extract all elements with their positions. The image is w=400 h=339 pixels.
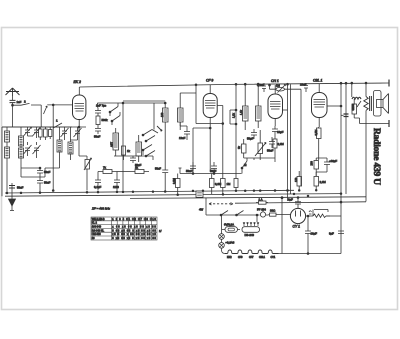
tube EK2 (73, 87, 86, 127)
svg-text:CY 1: CY 1 (293, 225, 301, 229)
wire top connect x98 (96, 103, 98, 108)
resistor 30ohm power (269, 209, 291, 217)
svg-text:1,1k: 1,1k (232, 112, 236, 118)
antenna (6, 88, 20, 100)
capacitor 3.3nF top CH1 (257, 83, 266, 92)
trimmer C1 (24, 127, 34, 136)
resistor x299 bottom (294, 171, 302, 191)
svg-text:Radione 439 U: Radione 439 U (371, 128, 381, 185)
output transformer primary zigzag (364, 82, 368, 201)
resistor x316 bottom (314, 177, 326, 191)
resistor 7k row (98, 166, 117, 174)
svg-text:≈0,3A6: ≈0,3A6 (226, 241, 235, 245)
choke HF right of CY1 (306, 211, 313, 216)
capacitor 1nF antenna (10, 100, 22, 127)
svg-text:10nF: 10nF (300, 83, 307, 87)
svg-text:CBL 1: CBL 1 (313, 79, 322, 83)
wire EK2 grid line (47, 104, 72, 106)
speaker (374, 91, 389, 117)
svg-text:1M: 1M (227, 182, 232, 186)
resistor 2k row (130, 166, 149, 174)
resistor 200 CBL1 cathode (310, 161, 319, 177)
switch pair mid (x110-120) (109, 103, 120, 125)
svg-text:x 68 x8 68 x8 68 x8 88: x 68 x8 68 x8 68 x8 88 (112, 226, 156, 229)
tube CF9 (203, 85, 217, 128)
svg-text:150: 150 (294, 177, 298, 182)
svg-text:CM-600: CM-600 (92, 233, 102, 236)
svg-text:1 2 3 4 C1 C2 C7 C8 C10: 1 2 3 4 C1 C2 C7 C8 C10 (112, 218, 156, 221)
svg-text:10µF: 10µF (277, 130, 284, 134)
capacitor bracket 1,1k (230, 109, 237, 125)
svg-text:50nF: 50nF (17, 186, 24, 190)
wire x196 vertical (196, 85, 223, 124)
coil L1 (5, 127, 10, 147)
tone switch (241, 158, 247, 174)
wire CF9 cathode bottom (193, 127, 211, 171)
IF transformer 1 coil b (178, 96, 184, 130)
svg-text:1M: 1M (276, 84, 281, 88)
hum coil bumps (351, 82, 361, 99)
resistor CH1 bottom (273, 136, 284, 158)
wire left block bottom (21, 168, 45, 177)
capacitor 50nF (x40 lower) (37, 178, 43, 194)
capacitor 8uF above CY1 (288, 197, 301, 204)
resistor row x223 (221, 179, 231, 195)
resistor row x236 (234, 179, 238, 191)
capacitor 50nF osc (130, 156, 142, 167)
svg-text:50nF: 50nF (267, 149, 274, 153)
svg-text:100: 100 (160, 112, 164, 117)
tube CH1 (268, 85, 283, 126)
coil L4 (19, 148, 41, 168)
svg-text:1nF: 1nF (17, 100, 22, 104)
svg-text:EK2: EK2 (227, 256, 232, 259)
dial lamp 1 (219, 215, 225, 239)
wire B+ vertical x341 (340, 82, 342, 253)
svg-text:50nF: 50nF (44, 181, 51, 185)
IF transformer 1 coil a (160, 102, 168, 191)
coil L3 (19, 127, 24, 148)
barretter arrows YYYYY (243, 222, 259, 226)
svg-text:8µF: 8µF (288, 198, 293, 202)
svg-text:500k: 500k (102, 118, 109, 122)
mains switch line (206, 198, 259, 216)
svg-text:CF 9: CF 9 (206, 79, 213, 83)
wire power box left x282 (281, 197, 283, 254)
grid leak components x96 (94, 104, 108, 139)
trimmer C6 (71, 127, 82, 140)
speaker terminal bottom (388, 120, 390, 127)
svg-text:8 x8 68 x8 8 x8 68 x8 88: 8 x8 68 x8 8 x8 68 x8 88 (112, 237, 156, 240)
capacitor pair band x40 (39, 127, 48, 140)
resistor row x211.7 (210, 174, 222, 195)
capacitor 13nF IF1 (179, 122, 190, 140)
svg-text:0,1µF: 0,1µF (94, 185, 101, 189)
capacitor 50nF ground (9, 186, 24, 190)
wire power bottom (278, 253, 341, 255)
svg-text:1113: 1113 (113, 185, 119, 189)
wire coil top bus (2, 126, 72, 128)
dial lamp 2 (219, 239, 235, 248)
capacitor electrolytic 10uF CBL1 (316, 158, 337, 176)
wire x287.5 vertical (287, 83, 289, 201)
resistor osc (122, 146, 131, 160)
coil L6 (68, 127, 73, 160)
resistor EK2 cathode pot (78, 126, 91, 190)
svg-text:16µF: 16µF (311, 232, 318, 236)
wire antenna column (52, 105, 54, 191)
svg-text:1/: 1/ (159, 229, 162, 233)
capacitor 10nF CH1 bottom (272, 126, 284, 136)
svg-text:1,1k: 1,1k (239, 109, 243, 115)
wire IF1 top (123, 93, 196, 101)
svg-text:x8 8 68 x 88 68 x8 88 x8: x8 8 68 x 88 68 x8 88 x8 (112, 233, 156, 236)
resistor 2k2 left of pot (237, 139, 246, 158)
osc coil A (110, 128, 119, 156)
wire x236 vertical (235, 83, 237, 178)
field coil GB50 (351, 99, 389, 124)
svg-text:0,2M: 0,2M (172, 178, 176, 184)
svg-text:WELLEN-B: WELLEN-B (92, 218, 105, 221)
switch 2 antenna (12, 100, 42, 127)
svg-text:CH 1: CH 1 (271, 79, 279, 83)
capacitor 50nF x163 (155, 167, 168, 173)
heater chain labels (227, 256, 276, 259)
capacitor 1113 bottom (113, 172, 130, 191)
trimmer C2 (33, 127, 41, 138)
box TW on bus (196, 191, 203, 197)
svg-text:160-340: 160-340 (92, 226, 102, 229)
svg-text:+10µF: +10µF (329, 159, 337, 163)
osc coil B (136, 135, 142, 162)
capacitor 0.1uF bottom (94, 172, 101, 191)
switch 1 grid arm (44, 106, 48, 114)
svg-text:1 A: 1 A (259, 197, 263, 201)
volume pot with arrow (255, 130, 266, 160)
coil L2 (5, 147, 10, 194)
barretter DB240 (242, 214, 260, 237)
top bus wire (80, 83, 390, 87)
table cell smudge text (92, 218, 157, 240)
bus wire L3 (130, 197, 366, 199)
trimmer C5 (61, 127, 69, 140)
capacitor 8uF out (329, 231, 344, 236)
trimmer C3 (24, 142, 32, 156)
svg-text:GB50: GB50 (351, 103, 355, 110)
tube CBL1 (312, 84, 342, 127)
switch cluster osc top (142, 126, 162, 142)
svg-text:2,2M: 2,2M (278, 142, 285, 146)
svg-text:CBL1: CBL1 (259, 256, 266, 259)
capacitor 16uF (305, 215, 317, 254)
ground symbol (9, 183, 16, 211)
svg-text:AST: AST (110, 142, 114, 147)
wire left edge (2, 127, 72, 196)
svg-text:200: 200 (310, 161, 314, 166)
fuse 1A (256, 197, 268, 204)
AF line wire (179, 168, 242, 174)
svg-text:3,3nF: 3,3nF (257, 83, 264, 87)
svg-text:DB-240: DB-240 (245, 233, 255, 237)
svg-text:KL 2: KL 2 (92, 222, 98, 225)
svg-text:ZF = 468 kHz: ZF = 468 kHz (91, 207, 111, 211)
speaker terminal top (388, 80, 390, 87)
svg-text:2,2M: 2,2M (320, 180, 327, 184)
wire x290.5 vertical (290, 84, 292, 194)
resistor 1M top right CH1 (269, 84, 301, 93)
svg-text:FF 344: FF 344 (257, 208, 266, 212)
capacitor band x49 (49, 127, 52, 139)
svg-text:4W: 4W (199, 208, 204, 212)
svg-text:8 68 x8 68 8 x8 88 x8 68: 8 68 x8 68 8 x8 88 x8 68 (112, 229, 156, 232)
svg-text:CF9: CF9 (238, 256, 243, 259)
capacitor 50nF row y171 a (186, 162, 196, 174)
wire x223 CF9 plate (217, 106, 224, 179)
svg-text:8µF: 8µF (329, 232, 334, 236)
junction dots buses (6, 189, 342, 198)
resistor zigzag power (313, 210, 341, 218)
heater chain humps (222, 248, 279, 253)
svg-text:0,5M: 0,5M (314, 130, 318, 136)
capacitor 50nF right of pot (267, 137, 275, 153)
wire EK2 cathode (72, 127, 86, 156)
svg-text:CY1: CY1 (271, 256, 276, 259)
svg-text:50µF: 50µF (247, 137, 254, 141)
capacitor 50nF row y171 b (210, 162, 217, 174)
ground bus wire L2 (5, 194, 341, 197)
table Abgleich (91, 217, 157, 240)
capacitor 10nF CBL1 grid (300, 83, 308, 93)
wire x346 vertical (345, 82, 347, 194)
power line L4 (235, 202, 366, 203)
wire osc bottom row (114, 156, 153, 160)
IF transformer 2 coil a (239, 83, 248, 130)
resistor row x177 (172, 174, 180, 195)
svg-text:13nF: 13nF (179, 136, 186, 140)
capacitor FF344 (257, 208, 269, 218)
resistor 0.5M under CBL1 (314, 127, 321, 160)
wire CH1 bottom to bus (244, 158, 275, 162)
svg-text:EK 2: EK 2 (74, 80, 81, 84)
switch cluster osc bottom (142, 145, 155, 157)
capacitor blob x346 (341, 114, 349, 117)
wire CH1 anode right (283, 89, 302, 186)
svg-text:50nF: 50nF (94, 135, 101, 139)
svg-text:CF7: CF7 (249, 256, 254, 259)
trimmer C4 (33, 142, 41, 158)
svg-text:50nF: 50nF (186, 169, 193, 173)
coil L5 (45, 127, 62, 168)
rectifier tube CY1 (290, 204, 305, 224)
ground bus wire L1 (5, 190, 294, 193)
mechanical link dashed (199, 203, 233, 212)
capacitor 50nF (x40 upper) (37, 167, 43, 178)
transformer core bars (370, 96, 372, 111)
capacitor 50nF under IF2 (247, 129, 257, 141)
switch 1 left (53, 119, 62, 129)
wire mid vertical x123 (97, 103, 165, 191)
svg-text:30Ω: 30Ω (270, 209, 275, 213)
pilot lamp pill (222, 222, 240, 232)
IF transformer 2 coil b (256, 83, 262, 128)
svg-text:6V/0,3A: 6V/0,3A (224, 222, 234, 226)
svg-text:50nF: 50nF (155, 167, 161, 171)
svg-text:RS-340 KL: RS-340 KL (92, 229, 105, 232)
